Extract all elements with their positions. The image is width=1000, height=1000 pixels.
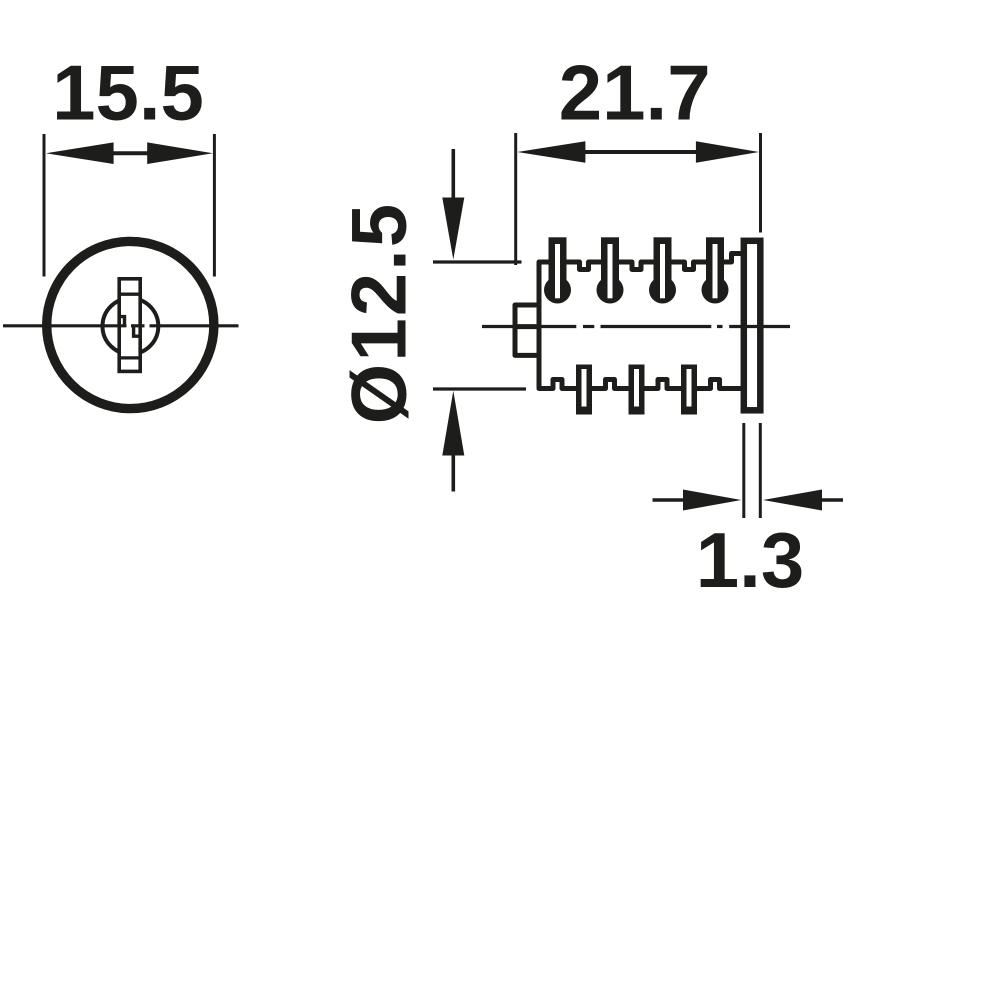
Ø12.5 top arrow (down) — [451, 149, 455, 200]
dimension 15.5 line and arrowheads — [110, 151, 150, 155]
dimension 21.7 line and arrowheads — [582, 150, 699, 154]
keyway right notch — [134, 326, 141, 336]
bottom pin 2 — [629, 365, 645, 415]
dimension 21.7 extension line right — [759, 133, 762, 233]
svg-text:Ø12.5: Ø12.5 — [335, 202, 423, 424]
bottom pin 1 — [576, 365, 592, 415]
body outline with chamber notches — [539, 254, 743, 389]
keyway channel rectangle — [119, 279, 140, 372]
top pin housing 4 — [702, 237, 729, 303]
keyway chamfer line bottom — [118, 356, 143, 359]
cam tab outline — [515, 305, 539, 355]
cam tab mid line — [515, 324, 539, 329]
side view centerline (dash-dot) — [482, 325, 576, 328]
top pin housing 1 — [544, 237, 571, 303]
Ø12.5 bottom arrow (up) — [442, 391, 464, 456]
svg-text:21.7: 21.7 — [559, 49, 711, 137]
dimension 1.3 extension line left — [742, 423, 745, 518]
cylinder face outer circle — [47, 241, 214, 408]
dimension 1.3 extension line right — [759, 423, 762, 518]
dimension Ø12.5 bottom line — [433, 387, 526, 390]
dimension 15.5 extension line left — [43, 134, 46, 277]
bottom pin 3 — [681, 365, 697, 415]
keyway left notch — [119, 317, 124, 326]
top pin housing 3 — [649, 237, 676, 303]
svg-text:1.3: 1.3 — [696, 516, 804, 604]
top pin housing 2 — [597, 237, 624, 303]
keyway chamfer line top — [118, 293, 143, 296]
dimension 21.7 extension line left — [514, 133, 517, 265]
1.3 right arrow — [763, 490, 822, 511]
end flange — [744, 241, 761, 410]
dimension 15.5 extension line right — [213, 134, 216, 277]
front view horizontal centerline — [3, 324, 127, 327]
1.3 left arrow — [653, 498, 685, 502]
plug inner circle — [102, 298, 158, 354]
dimension Ø12.5 top line — [433, 260, 522, 263]
svg-text:15.5: 15.5 — [52, 49, 204, 137]
